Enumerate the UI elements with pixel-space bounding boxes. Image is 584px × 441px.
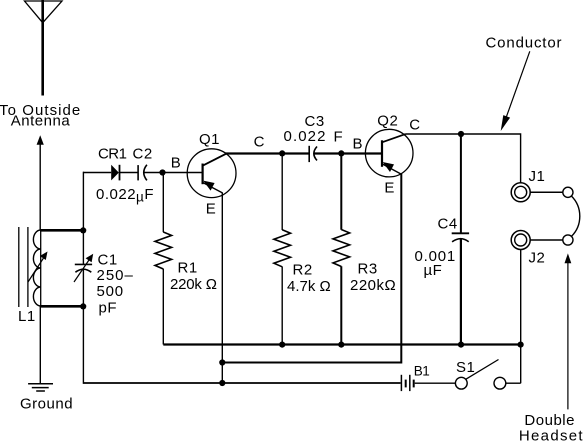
svg-text:R1: R1: [178, 260, 198, 277]
battery B1: [400, 375, 402, 391]
node C4 top junction: [458, 131, 464, 137]
node R2 bottom: [279, 342, 285, 348]
svg-text:pF: pF: [99, 299, 118, 316]
svg-text:S1: S1: [456, 359, 475, 376]
node R3 bottom: [338, 342, 344, 348]
svg-text:B: B: [353, 135, 364, 152]
svg-text:CR1: CR1: [98, 146, 127, 163]
headset plug top: [563, 187, 573, 197]
svg-text:C: C: [254, 134, 265, 151]
wire bottom bus: [163, 343, 520, 345]
svg-text:R2: R2: [293, 262, 313, 279]
wire S1 to riser: [506, 382, 521, 384]
diode CR1: [111, 165, 119, 181]
node L1 top junction: [80, 227, 86, 233]
headset pointer arrow: [567, 261, 569, 409]
wire diode row: [83, 172, 111, 174]
node rail2 left junction: [219, 359, 225, 365]
inductor L1 coil: [40, 230, 42, 306]
svg-text:Headset: Headset: [519, 427, 584, 441]
node rail3 junction: [219, 380, 225, 386]
wire J1 to plug: [530, 191, 563, 193]
headset plug bottom: [563, 235, 573, 245]
wire rail3 bottom return: [83, 382, 400, 384]
wire ground lead: [39, 306, 41, 384]
node B junction: [159, 169, 165, 175]
antenna triangle: [25, 1, 63, 23]
resistor R1: [162, 173, 164, 233]
wire Q1 emitter drop: [221, 193, 223, 384]
wire C3 to Q2 base: [315, 152, 383, 154]
svg-text:Antenna: Antenna: [11, 113, 71, 130]
transistor Q1: [187, 149, 236, 198]
svg-text:220kΩ: 220kΩ: [350, 277, 396, 294]
wire left riser x=83: [82, 172, 84, 265]
node L1 bottom junction: [80, 303, 86, 309]
capacitor C2: [137, 165, 139, 180]
svg-text:µF: µF: [424, 262, 443, 279]
transistor Q2: [365, 129, 413, 177]
wire coil bottom bar: [40, 305, 83, 308]
wire J2 to plug: [530, 239, 563, 241]
antenna lead-in arrow: [39, 143, 41, 230]
svg-text:R3: R3: [358, 260, 378, 277]
capacitor C4: [460, 134, 462, 233]
wire battery to S1: [415, 382, 456, 384]
conductor arrow: [506, 51, 530, 119]
svg-text:0.022: 0.022: [284, 128, 327, 145]
svg-text:4.7k Ω: 4.7k Ω: [287, 278, 331, 295]
wire J2 drop: [520, 250, 522, 384]
wire Q1 collector bus: [225, 152, 309, 154]
svg-text:C1: C1: [98, 251, 118, 268]
wire C2 to node B: [144, 172, 203, 174]
L1 variable arrow: [28, 257, 45, 283]
jack J1: [511, 183, 530, 202]
svg-text:E: E: [206, 201, 217, 218]
wire rail2 emitters: [222, 174, 401, 363]
svg-text:B1: B1: [414, 364, 430, 379]
svg-text:Q2: Q2: [377, 113, 398, 130]
capacitor C3: [308, 146, 310, 162]
svg-text:F: F: [334, 128, 344, 145]
resistor R2: [281, 154, 283, 231]
svg-text:250–: 250–: [97, 267, 134, 284]
svg-text:L1: L1: [18, 308, 36, 325]
inductor L1 core lines: [18, 227, 20, 307]
svg-text:C4: C4: [438, 216, 458, 233]
switch S1: [455, 377, 467, 389]
svg-text:500: 500: [97, 283, 124, 300]
wire diode to C2: [120, 172, 139, 174]
svg-text:0.022µF: 0.022µF: [96, 186, 154, 205]
C1 variable arrow: [74, 259, 90, 283]
svg-text:Ground: Ground: [20, 396, 73, 413]
wire coil top bar: [40, 229, 83, 232]
headset cord arc: [571, 196, 579, 236]
resistor R3: [340, 154, 342, 230]
svg-text:Q1: Q1: [199, 131, 220, 148]
svg-text:E: E: [384, 179, 395, 196]
wire Q2 collector to headset: [406, 134, 521, 183]
ground: [28, 383, 53, 385]
node F junction: [338, 150, 344, 156]
jack J2: [511, 231, 530, 250]
svg-text:C2: C2: [133, 146, 153, 163]
capacitor C1: [75, 263, 92, 265]
node bus right end: [518, 342, 524, 348]
svg-text:B: B: [171, 155, 182, 172]
svg-text:C: C: [409, 117, 420, 134]
svg-text:J1: J1: [529, 168, 546, 185]
node R2 top junction: [279, 150, 285, 156]
antenna mast: [41, 0, 44, 96]
svg-text:J2: J2: [529, 250, 546, 267]
svg-text:Conductor: Conductor: [486, 34, 563, 51]
node C4 bottom: [458, 342, 464, 348]
svg-text:220k Ω: 220k Ω: [170, 276, 217, 293]
